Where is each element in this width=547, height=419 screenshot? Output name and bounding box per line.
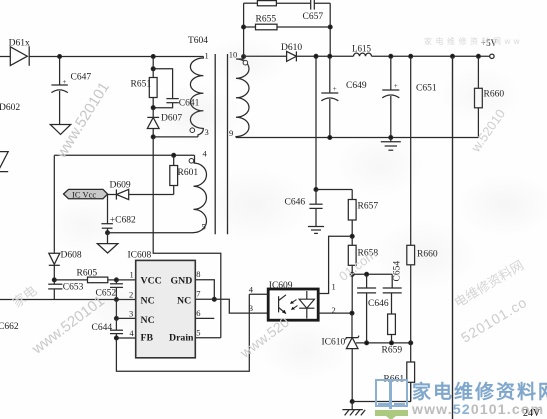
capacitor C651 (electrolytic) <box>382 56 437 137</box>
node <box>314 188 318 192</box>
node: C651 <box>389 54 393 58</box>
IC608 switching regulator <box>128 251 196 358</box>
watermark gray diagonal 3 <box>237 314 292 361</box>
watermark teal site name <box>412 377 547 404</box>
node <box>390 341 394 345</box>
node: FB pin junction <box>115 336 119 340</box>
capacitor C646 (lower) <box>357 274 389 343</box>
capacitor C641 <box>153 69 199 109</box>
svg-text:C646: C646 <box>368 299 389 309</box>
node: R660a branch <box>477 54 481 58</box>
IC609 pin labels <box>249 281 336 315</box>
svg-text:+: + <box>394 82 398 90</box>
wire: R658 junction down to IC609 pin2 line <box>351 274 353 313</box>
wire: feedback sense riser <box>315 56 317 189</box>
capacitor C653 <box>48 280 83 300</box>
svg-text:NC: NC <box>177 295 191 306</box>
watermark gray diagonal 6 <box>450 255 527 311</box>
svg-text:4: 4 <box>249 284 254 294</box>
wire: aux pin5 to ground node <box>108 233 194 244</box>
node: C647 junction <box>58 55 62 59</box>
wire: primary ground rail to pin 2 <box>0 299 136 301</box>
node: C646 lower top <box>365 272 369 276</box>
svg-text:4: 4 <box>130 328 135 338</box>
svg-text:Drain: Drain <box>169 333 194 344</box>
inductor L615 <box>352 44 372 57</box>
svg-text:C647: C647 <box>71 73 92 83</box>
diode D610 <box>281 43 302 61</box>
node: R657/R658 junction <box>350 234 354 238</box>
wire: snubber loop left riser (pin10 up) <box>243 3 245 56</box>
svg-text:R657: R657 <box>358 202 379 212</box>
node: R660b branch <box>409 54 413 58</box>
resistor R660 (lower) <box>407 245 438 343</box>
svg-text:7: 7 <box>196 289 200 299</box>
diode D61x <box>9 39 30 66</box>
svg-text:1: 1 <box>205 51 209 61</box>
node: VCC pin junction <box>115 278 119 282</box>
resistor R661 <box>384 343 415 402</box>
svg-text:C644: C644 <box>92 323 113 333</box>
shunt regulator IC610 <box>322 313 360 401</box>
node: transformer pin3 junction <box>151 135 155 139</box>
capacitor C649 (electrolytic) <box>321 56 367 137</box>
svg-text:5: 5 <box>196 328 200 338</box>
svg-text:D607: D607 <box>161 113 182 123</box>
svg-text:NC: NC <box>141 295 155 306</box>
label 24V output <box>523 408 540 419</box>
node <box>365 341 369 345</box>
svg-text:3: 3 <box>129 309 133 319</box>
diode D607 <box>147 108 182 137</box>
svg-text:L615: L615 <box>352 44 371 54</box>
node: D608 / R605 / C653 <box>52 278 56 282</box>
node: R658 bottom junction <box>350 272 354 276</box>
T604 primary winding 1-3 <box>190 51 209 138</box>
svg-text:R651: R651 <box>131 80 152 90</box>
svg-text:1: 1 <box>332 281 336 291</box>
wire: Vcc rectifier line <box>129 194 174 196</box>
T604 core <box>215 54 227 234</box>
svg-text:C649: C649 <box>346 81 367 91</box>
wire: IC609 pin4 stub <box>249 293 268 295</box>
svg-text:FB: FB <box>141 333 154 344</box>
capacitor C644 <box>92 318 124 338</box>
node: snubber branch junction on rail <box>151 55 155 59</box>
resistor R655 <box>242 15 332 30</box>
node: pin8 joins pin7 <box>212 297 216 301</box>
svg-text:6: 6 <box>196 308 200 318</box>
resistor R660 (top right) <box>475 56 505 137</box>
svg-text:+: + <box>63 78 67 86</box>
node: pin3 junction <box>115 317 119 321</box>
wire: pin5 Drain stub <box>195 337 221 339</box>
watermark gray diagonal 4 <box>336 246 379 284</box>
wire: pin1 stub <box>116 279 135 281</box>
node <box>151 106 155 110</box>
wire: IC609 pin1 to divider <box>318 236 352 293</box>
watermark gray diagonal 1 <box>53 79 113 161</box>
wire: FB route to optocoupler pin4 <box>116 294 249 371</box>
wire: bottom return <box>352 401 411 403</box>
svg-text:D61x: D61x <box>9 39 30 49</box>
diode D602 (partial, off left edge) <box>0 103 20 172</box>
svg-text:R605: R605 <box>77 269 98 279</box>
capacitor C657 <box>303 0 331 22</box>
svg-text:R659: R659 <box>382 346 403 356</box>
resistor R657 <box>348 190 378 237</box>
svg-text:+: + <box>333 85 337 93</box>
node: pin2 junction <box>350 311 354 315</box>
svg-text:GND: GND <box>171 276 193 287</box>
wire: 24V line <box>452 56 454 419</box>
capacitor C682 (electrolytic) <box>101 195 136 233</box>
wire: primary top rail to transformer pin 1 <box>29 56 203 58</box>
ground (C682, triangle) <box>97 244 118 253</box>
wire: snubber loop right riser <box>329 3 331 56</box>
svg-text:C662: C662 <box>0 322 19 332</box>
diode D609 <box>108 181 131 200</box>
svg-text:C653: C653 <box>63 283 84 293</box>
node +5V output terminal <box>481 38 498 59</box>
svg-text:9: 9 <box>229 128 233 138</box>
wire: pin7 to optocoupler pin3 <box>195 299 268 313</box>
wire: vertical pin2-pin3 <box>115 300 117 319</box>
node: C682 / aux pin5 ground <box>106 231 110 235</box>
node <box>409 341 413 345</box>
node: 24V branch <box>451 54 455 58</box>
resistor R651 <box>131 69 158 108</box>
svg-text:C654: C654 <box>393 261 403 282</box>
svg-text:2: 2 <box>129 289 133 299</box>
svg-text:IC Vcc: IC Vcc <box>72 190 96 200</box>
svg-text:4: 4 <box>203 149 208 159</box>
diode D608 <box>49 251 82 280</box>
svg-text:D602: D602 <box>0 103 20 113</box>
wire: pin6 stub <box>195 317 214 319</box>
wire: rail inductor to +5V terminal <box>372 55 490 57</box>
capacitor C654 <box>383 261 403 314</box>
watermark gray diagonal 5 <box>458 294 530 346</box>
svg-text:R601: R601 <box>178 168 199 178</box>
watermark gray diagonal 2 <box>29 292 108 357</box>
svg-text:C657: C657 <box>303 12 324 22</box>
svg-text:3: 3 <box>205 127 209 137</box>
node: R601 top <box>172 153 176 157</box>
svg-text:IC608: IC608 <box>128 251 152 261</box>
wire: primary top rail left segment <box>0 56 10 58</box>
wire: pin8 GND stub <box>195 280 214 300</box>
svg-text:C641: C641 <box>179 98 200 108</box>
wire: R658 bottom to C654 <box>352 273 392 275</box>
svg-text:5: 5 <box>202 222 206 232</box>
wire: secondary rail pin10 to D610 <box>244 55 287 57</box>
node: snubber right / C649 <box>328 54 332 58</box>
watermark gray faint top right <box>424 36 523 47</box>
ground (secondary, bars under rail) <box>381 138 401 151</box>
watermark gray diagonal 7 <box>468 106 508 154</box>
capacitor C652 <box>96 280 124 300</box>
svg-text:1: 1 <box>130 270 134 280</box>
resistor R658 <box>348 236 378 274</box>
wire: pin3 stub <box>116 317 135 319</box>
optocoupler IC609 <box>268 281 318 320</box>
svg-text:IC609: IC609 <box>269 281 293 291</box>
wire: secondary ground rail <box>236 137 478 139</box>
ground (IC610, hatched) <box>342 402 365 416</box>
wire: Vcc feed left riser <box>53 155 55 251</box>
svg-text:3: 3 <box>249 303 253 313</box>
svg-text:R660: R660 <box>417 250 438 260</box>
svg-text:VCC: VCC <box>141 276 162 287</box>
watermark teal url <box>412 401 544 417</box>
node: pin2 junction <box>115 298 119 302</box>
svg-text:+C682: +C682 <box>110 215 136 225</box>
wire: pin 3 to junction <box>153 136 198 138</box>
svg-text:R655: R655 <box>256 15 277 25</box>
node <box>151 67 155 71</box>
wire: aux pin4 top line <box>54 154 194 156</box>
wire: IC610 ref line <box>356 342 411 344</box>
capacitor C647 (electrolytic) <box>51 57 91 125</box>
wire: R660 lower riser from +5V rail <box>410 56 412 245</box>
svg-text:D610: D610 <box>281 43 302 53</box>
wire: to R657 <box>316 189 352 191</box>
node: feedback branch <box>314 54 318 58</box>
IC609 phototransistor <box>279 295 286 314</box>
watermark teal logo book icon <box>375 379 408 407</box>
resistor R605 <box>54 269 116 283</box>
svg-text:R660: R660 <box>484 90 505 100</box>
resistor R659 <box>382 314 403 356</box>
T604 secondary winding 10-9 <box>229 50 249 139</box>
svg-text:NC: NC <box>141 315 155 326</box>
svg-text:IC610: IC610 <box>322 338 346 348</box>
ground (C647, triangle) <box>50 125 70 135</box>
IC609 light arrows <box>290 300 298 310</box>
wire: IC609 pin2 to IC610 rail <box>318 312 352 314</box>
node: IC610 anode bottom <box>350 400 354 404</box>
svg-text:T604: T604 <box>188 36 208 46</box>
IC609 LED <box>299 291 314 319</box>
net flag IC Vcc <box>64 189 108 199</box>
svg-text:10: 10 <box>229 50 238 60</box>
svg-text:D609: D609 <box>110 181 131 191</box>
T604 aux winding 4-5 <box>189 149 207 233</box>
svg-text:8: 8 <box>196 269 200 279</box>
svg-text:C651: C651 <box>416 84 437 94</box>
wire: FB pin stub <box>116 337 135 339</box>
wire: drain riser (junction down, over to drain pin) <box>153 137 221 338</box>
resistor (top, unlabeled) <box>244 1 311 6</box>
capacitor C646 (upper) <box>285 190 323 227</box>
watermark gray chars left <box>8 280 40 311</box>
svg-text:C646: C646 <box>285 198 306 208</box>
resistor R601 <box>170 155 199 194</box>
wire: rail D610 to inductor <box>296 55 353 57</box>
svg-text:D608: D608 <box>61 251 82 261</box>
ground (C646 upper, bars) <box>308 227 324 234</box>
wire: snubber vertical <box>152 57 154 69</box>
